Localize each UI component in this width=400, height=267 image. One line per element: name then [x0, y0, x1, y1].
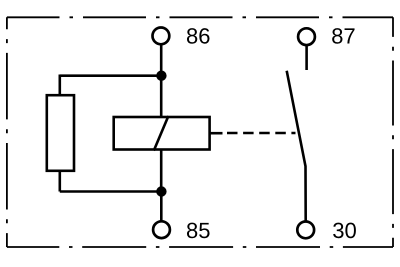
terminal 86 circle	[153, 28, 170, 45]
relay enclosure dash-dot border left	[6, 17, 8, 247]
label 85	[187, 223, 210, 239]
wire coil K1 bottom to node B	[160, 150, 163, 192]
terminal 87 circle	[298, 28, 315, 45]
wire corner down to resistor R1 top	[58, 75, 61, 96]
actuator dashed link to switch	[227, 132, 296, 135]
wire node B to terminal 85	[160, 192, 163, 222]
coil K1 diagonal stroke	[154, 116, 169, 151]
relay enclosure dash-dot border top	[7, 16, 393, 18]
wire node B horizontal to junction	[60, 190, 162, 193]
node B junction dot	[156, 186, 166, 196]
wire resistor R1 bottom to node B	[58, 171, 61, 192]
node A junction dot	[156, 71, 166, 81]
wire terminal 87 to fixed contact	[305, 45, 308, 70]
wire terminal 86 to node A	[160, 44, 163, 76]
label 86	[187, 28, 210, 44]
label 87	[332, 28, 354, 44]
terminal 30 circle	[297, 222, 314, 239]
switch S1 movable blade	[287, 71, 306, 222]
terminal 85 circle	[153, 221, 170, 238]
coil K1 body	[114, 117, 210, 150]
relay enclosure dash-dot border bottom	[7, 246, 393, 248]
coil K1 actuator stub	[210, 132, 223, 135]
resistor R1 body	[47, 95, 74, 171]
relay enclosure dash-dot border right	[392, 17, 394, 247]
wire node A to coil K1 top	[160, 76, 163, 117]
label 30	[333, 223, 356, 239]
wire node A to resistor top corner	[60, 74, 162, 77]
